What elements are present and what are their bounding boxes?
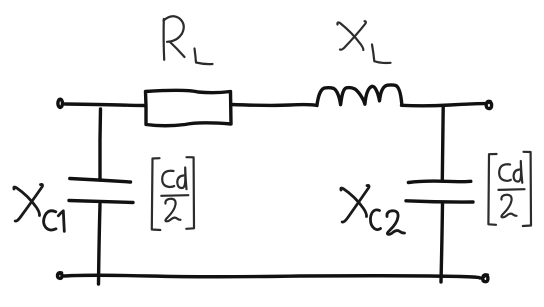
wire left capacitor branch top (node A tap) [98,109,102,140]
label X_L [337,21,390,63]
label X_C2 [341,185,405,234]
wire left capacitor branch (plate to bottom rail) [99,141,101,284]
resistor RL [146,90,232,125]
value label [Cd/2] left [152,157,194,230]
inductor XL [317,85,402,105]
capacitor XC2 [406,181,473,202]
wire right capacitor branch top [441,108,445,181]
value label [Cd/2] right [488,152,531,226]
wire inductor to terminal top-right [402,104,485,106]
capacitor XC1 [69,179,133,203]
terminal top-left [58,99,63,107]
terminal top-right [486,101,491,108]
wire top-left to resistor [65,104,145,106]
bottom rail wire [64,275,480,278]
wire right capacitor branch (plate to bottom rail) [441,204,443,282]
label X_C1 [14,184,64,231]
label R_L [164,16,213,64]
wire resistor to inductor [231,105,317,106]
terminal bottom-left [57,273,62,279]
terminal bottom-right [483,275,488,282]
